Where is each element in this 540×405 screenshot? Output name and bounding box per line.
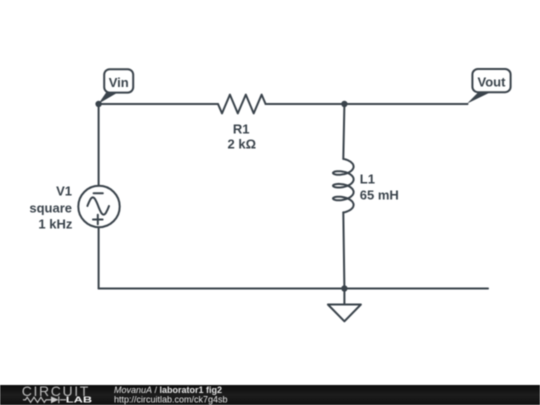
footer bar xyxy=(0,385,540,405)
wire: Vin node to R1 left terminal xyxy=(99,103,218,105)
svg-text:L1: L1 xyxy=(360,172,375,187)
voltage source V1 (function generator) xyxy=(78,186,119,227)
svg-text:Vin: Vin xyxy=(109,75,129,90)
svg-text:square: square xyxy=(29,200,72,215)
junction dot: ground rail node xyxy=(341,285,347,291)
resistor R1 xyxy=(218,95,266,114)
wire: bottom ground rail xyxy=(99,288,488,290)
node dot: Vin node xyxy=(95,101,101,107)
junction dot: R1/L1/Vout node xyxy=(341,101,347,107)
svg-text:65 mH: 65 mH xyxy=(360,187,399,202)
svg-text:1 kHz: 1 kHz xyxy=(38,217,72,232)
svg-text:Vout: Vout xyxy=(478,75,507,90)
wire: R1 right terminal to center junction xyxy=(266,103,345,105)
net flag Vout xyxy=(467,69,511,104)
ground symbol xyxy=(328,289,361,322)
svg-text:MovanuA / laborator1 fig2: MovanuA / laborator1 fig2 xyxy=(114,385,222,395)
CircuitLab logo xyxy=(22,383,92,404)
svg-text:LAB: LAB xyxy=(66,395,92,405)
svg-text:http://circuitlab.com/ck7g4sb: http://circuitlab.com/ck7g4sb xyxy=(114,395,228,405)
svg-text:R1: R1 xyxy=(233,121,250,136)
inductor L1 coil xyxy=(333,159,354,213)
wire: Vin node down to V1 top terminal xyxy=(98,104,100,186)
svg-text:V1: V1 xyxy=(56,184,72,199)
svg-text:2 kΩ: 2 kΩ xyxy=(228,137,257,152)
net flag Vin xyxy=(99,69,134,103)
wire: V1 bottom terminal to bottom rail xyxy=(98,227,100,288)
wire: center junction down to L1 top xyxy=(343,104,344,159)
wire: center junction to Vout flag xyxy=(344,103,467,105)
wire: L1 bottom to ground rail junction xyxy=(343,212,344,288)
